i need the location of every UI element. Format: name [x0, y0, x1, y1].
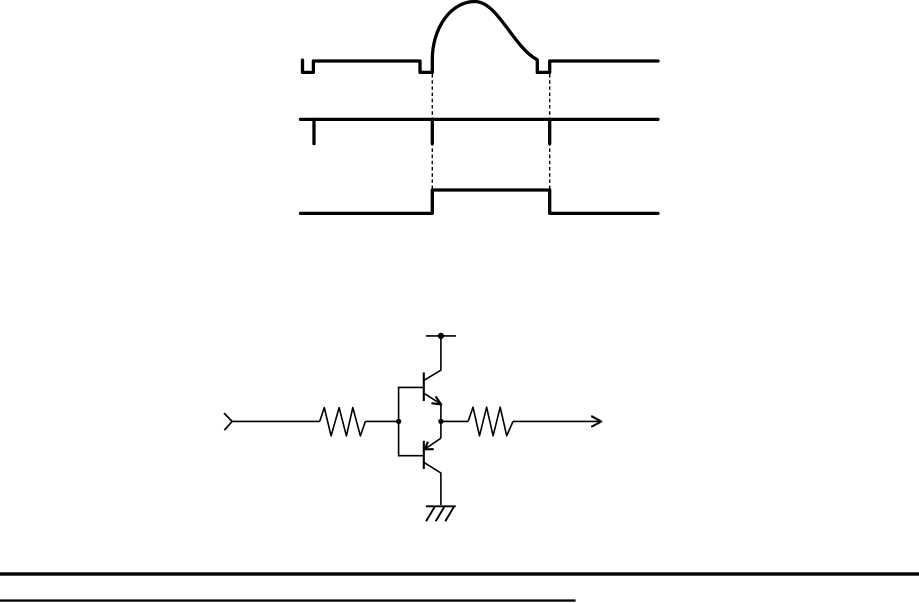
- ground hatch 1: [426, 507, 435, 521]
- resistor R1: [320, 408, 366, 436]
- transistor Q1 (NPN) base bar: [423, 372, 425, 401]
- clock tick 1: [312, 119, 315, 143]
- transistor Q1 collector: [424, 336, 441, 381]
- wire: output node to Q2 emitter: [440, 421, 442, 438]
- wire: R2 to output: [513, 420, 601, 422]
- waveform trace 2: clock baseline: [301, 118, 659, 121]
- waveform trace 3: output pulse: [301, 190, 659, 213]
- power terminal bar: [426, 335, 456, 337]
- wire: R1 to base node: [365, 420, 398, 422]
- ground bar: [426, 505, 456, 507]
- wire: input to R1: [232, 420, 320, 422]
- transistor Q1 emitter: [424, 393, 441, 404]
- wire: base rail vertical: [398, 387, 400, 455]
- dashed guide line at t1 (x=432): [431, 74, 433, 189]
- transistor Q2 emitter: [425, 438, 441, 449]
- transistor Q2 collector: [424, 462, 441, 505]
- wire: base of Q1: [398, 386, 424, 388]
- waveform trace 1: signal with glitch notches and analog bump: [303, 1, 659, 72]
- wire: output node to R2: [441, 420, 468, 422]
- wire: Q1 emitter to output node: [440, 405, 442, 422]
- input terminal chevron: [224, 413, 232, 430]
- footer rule thick: [0, 572, 919, 575]
- dashed guide line at t2 (x=550): [549, 74, 551, 189]
- wire: base of Q2: [398, 455, 424, 457]
- resistor R2: [468, 407, 513, 436]
- ground hatch 2: [436, 507, 445, 521]
- clock tick 3: [548, 119, 551, 143]
- node: base junction dot: [396, 419, 401, 424]
- footer rule thin: [0, 599, 576, 601]
- ground hatch 3: [445, 507, 454, 521]
- clock tick 2: [431, 119, 434, 143]
- transistor Q2 (PNP) base bar: [423, 441, 425, 469]
- transistor Q2 emitter arrowhead: [425, 442, 434, 450]
- power terminal dot: [438, 333, 444, 339]
- transistor Q1 emitter arrowhead: [431, 396, 441, 404]
- output arrowhead: [592, 416, 601, 426]
- node: output junction dot: [438, 419, 443, 424]
